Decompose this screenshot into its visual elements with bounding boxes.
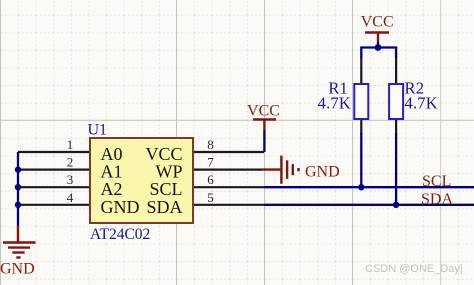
svg-text:4.7K: 4.7K xyxy=(318,94,351,113)
svg-text:1: 1 xyxy=(67,137,74,152)
svg-text:5: 5 xyxy=(207,190,214,205)
svg-text:8: 8 xyxy=(207,137,214,152)
svg-text:GND: GND xyxy=(305,163,340,180)
svg-text:6: 6 xyxy=(207,172,214,187)
svg-text:2: 2 xyxy=(67,155,74,170)
svg-text:SDA: SDA xyxy=(146,197,182,217)
svg-text:CSDN @ONE_Day|: CSDN @ONE_Day| xyxy=(365,263,463,275)
svg-text:GND: GND xyxy=(0,261,35,278)
svg-text:4.7K: 4.7K xyxy=(405,94,438,113)
svg-text:3: 3 xyxy=(67,172,74,187)
svg-text:GND: GND xyxy=(101,197,140,217)
svg-text:VCC: VCC xyxy=(247,103,280,120)
svg-text:SCL: SCL xyxy=(422,173,451,190)
svg-text:SDA: SDA xyxy=(421,191,453,208)
svg-text:AT24C02: AT24C02 xyxy=(90,226,150,243)
svg-text:U1: U1 xyxy=(88,122,108,139)
svg-text:7: 7 xyxy=(207,155,214,170)
svg-text:VCC: VCC xyxy=(361,14,394,31)
svg-text:4: 4 xyxy=(67,190,74,205)
